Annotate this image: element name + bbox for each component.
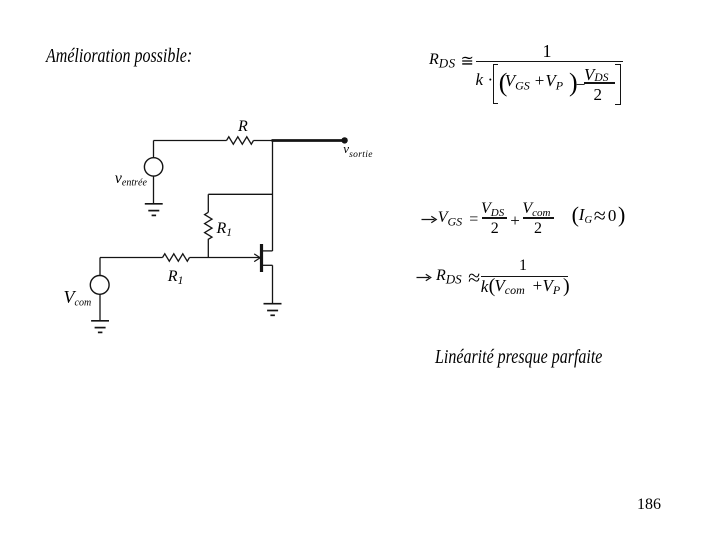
- eq2 denominator 2: [491, 221, 499, 237]
- eq2 equals: [469, 212, 478, 228]
- wire: V_com bottom lead: [99, 294, 101, 320]
- transistor Q1 drain stub: [263, 250, 273, 252]
- resistor R (horizontal zigzag): [227, 137, 254, 144]
- eq1 inner numerator V_DS: [584, 66, 608, 85]
- node: v_sortie terminal dot: [341, 137, 347, 143]
- transistor Q1 body bar: [260, 244, 263, 272]
- arrow (implication, eq R_DS): [417, 274, 431, 281]
- transistor Q1 gate arrow: [254, 254, 260, 262]
- eq1 inner denominator 2: [594, 86, 603, 103]
- eq3 close paren: [563, 276, 570, 296]
- wire: thick output lead to v_sortie: [272, 139, 346, 142]
- label V_com (common-mode source): [64, 288, 92, 309]
- eq3 main fraction bar: [481, 276, 568, 278]
- wire: feedback from drain rail to R1 top: [208, 193, 272, 195]
- ground (below v_entrée): [145, 204, 163, 216]
- wire: source down lead: [272, 265, 274, 303]
- eq2 fraction bar (V_DS/2): [482, 217, 508, 218]
- wire: v_entrée source top lead: [153, 141, 155, 158]
- eq1 lhs R_DS ≅: [429, 52, 474, 70]
- wire: gate lead to transistor: [190, 257, 260, 259]
- eq2 side note I_G: [579, 206, 592, 227]
- eq3 numerator 1: [519, 258, 527, 274]
- caption: Linéarité presque parfaite: [435, 347, 602, 367]
- eq2 side note approx: [594, 205, 606, 227]
- eq2 numerator V_DS: [481, 201, 504, 219]
- label R (top resistor): [238, 119, 248, 135]
- label v_entrée (input source): [115, 171, 147, 189]
- eq1 minus: [576, 76, 586, 93]
- eq1 close paren: [569, 70, 578, 96]
- resistor R1 (horizontal zigzag, gate): [163, 254, 190, 261]
- eq2 plus: [510, 212, 520, 229]
- page number: [637, 497, 661, 513]
- label v_sortie (output node): [343, 142, 373, 161]
- eq2 side note open paren: [572, 204, 579, 226]
- source v_entrée (circle): [144, 158, 162, 176]
- wire: v_entrée source bottom lead: [153, 176, 155, 203]
- eq3 open paren: [489, 276, 496, 296]
- wire: top rail right of R: [254, 140, 273, 142]
- transistor Q1 source stub: [263, 264, 273, 266]
- eq2 V_GS: [438, 210, 462, 228]
- eq3 approx: [468, 267, 480, 289]
- wire: gate rail from V_com: [100, 257, 163, 259]
- eq1 V_GS + V_P: [505, 72, 563, 92]
- eq1 numerator 1: [543, 42, 552, 60]
- eq2 fraction bar (V_com/2): [523, 217, 553, 218]
- eq1 closing square bracket: [615, 64, 621, 105]
- eq3 denominator k: [481, 278, 489, 295]
- wire: V_com top lead: [99, 258, 101, 276]
- eq1 denominator k·: [476, 71, 494, 88]
- eq2 denominator 2: [534, 221, 542, 237]
- eq2 numerator V_com: [522, 201, 550, 219]
- wire: vertical drain rail: [272, 141, 274, 252]
- label R1 (gate resistor): [168, 269, 184, 288]
- ground (below V_com): [91, 321, 109, 333]
- eq2 side note zero: [608, 207, 617, 224]
- source V_com (circle): [90, 276, 109, 295]
- eq1 inner fraction bar: [584, 82, 615, 83]
- eq1 main fraction bar: [476, 61, 623, 63]
- eq1 opening square bracket: [493, 64, 499, 104]
- wire: top rail left segment: [154, 140, 227, 142]
- eq2 side note close paren: [618, 204, 625, 226]
- label R1 (vertical resistor): [217, 221, 233, 240]
- ground (below transistor source): [264, 304, 282, 316]
- resistor R1 (vertical zigzag): [205, 212, 212, 239]
- wire: R1 lower lead: [207, 239, 209, 258]
- eq3 V_P: [543, 277, 561, 296]
- eq1 open paren: [499, 70, 508, 96]
- title: Amélioration possible:: [46, 46, 192, 66]
- arrow (implication, eq V_GS): [422, 216, 437, 223]
- eq3 plus: [533, 277, 543, 294]
- eq3 V_com: [494, 277, 524, 296]
- wire: R1 upper lead: [207, 194, 209, 212]
- eq3 R_DS: [436, 268, 462, 286]
